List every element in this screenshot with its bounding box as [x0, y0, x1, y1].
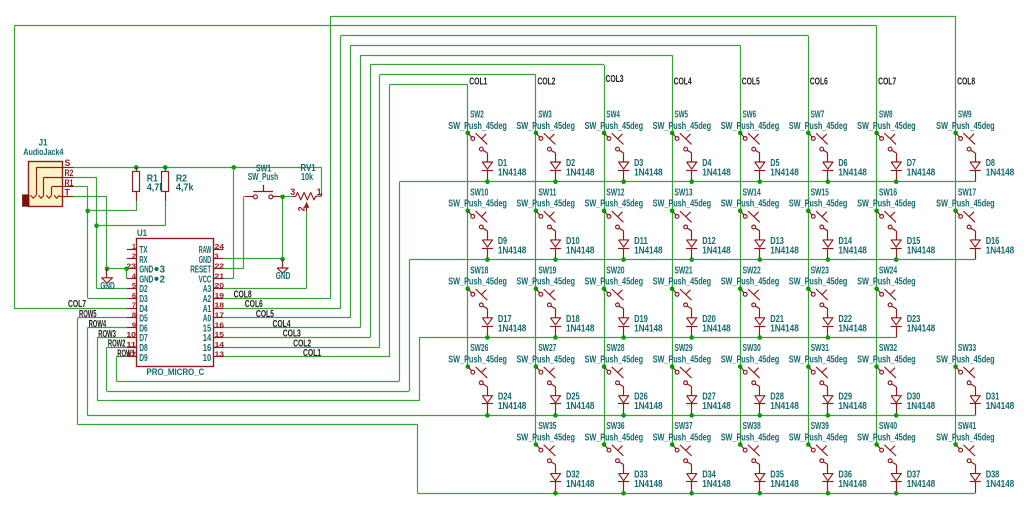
svg-text:SW_Push_45deg: SW_Push_45deg [653, 198, 712, 210]
svg-text:1N4148: 1N4148 [634, 244, 663, 256]
svg-text:SW_Push_45deg: SW_Push_45deg [936, 354, 995, 366]
svg-text:SW_Push_45deg: SW_Push_45deg [516, 198, 575, 210]
svg-text:SW3: SW3 [538, 109, 552, 121]
svg-text:1N4148: 1N4148 [907, 167, 936, 179]
svg-text:1N4148: 1N4148 [566, 400, 595, 412]
svg-text:SW_Push_45deg: SW_Push_45deg [516, 276, 575, 288]
svg-text:SW14: SW14 [743, 186, 761, 198]
svg-text:1N4148: 1N4148 [498, 322, 527, 334]
svg-text:19: 19 [215, 291, 224, 300]
svg-text:SW_Push_45deg: SW_Push_45deg [936, 431, 995, 443]
svg-text:1N4148: 1N4148 [838, 244, 867, 256]
svg-text:1N4148: 1N4148 [838, 167, 867, 179]
svg-text:1N4148: 1N4148 [498, 167, 527, 179]
svg-text:R2: R2 [65, 168, 74, 178]
svg-text:SW_Push_45deg: SW_Push_45deg [721, 276, 780, 288]
svg-text:COL1: COL1 [303, 348, 321, 359]
svg-text:10k: 10k [301, 171, 313, 183]
svg-text:5: 5 [132, 281, 136, 290]
svg-text:1N4148: 1N4148 [838, 478, 867, 490]
svg-text:SW33: SW33 [958, 342, 976, 354]
svg-text:SW18: SW18 [470, 264, 488, 276]
svg-text:1N4148: 1N4148 [702, 167, 731, 179]
svg-text:1: 1 [317, 187, 322, 197]
svg-text:SW5: SW5 [674, 109, 688, 121]
svg-text:SW38: SW38 [743, 420, 761, 432]
svg-text:D9: D9 [139, 353, 148, 364]
svg-text:1N4148: 1N4148 [907, 400, 936, 412]
svg-text:1N4148: 1N4148 [702, 322, 731, 334]
svg-text:SW_Push_45deg: SW_Push_45deg [516, 354, 575, 366]
svg-text:COL6: COL6 [810, 76, 828, 87]
svg-text:COL2: COL2 [293, 338, 311, 349]
svg-text:1N4148: 1N4148 [838, 322, 867, 334]
svg-text:PRO_MICRO_C: PRO_MICRO_C [147, 367, 205, 377]
svg-text:1N4148: 1N4148 [634, 167, 663, 179]
svg-text:24: 24 [215, 242, 226, 251]
svg-text:SW_Push_45deg: SW_Push_45deg [585, 276, 644, 288]
svg-text:GND: GND [276, 270, 291, 282]
svg-text:SW_Push_45deg: SW_Push_45deg [516, 431, 575, 443]
svg-text:SW23: SW23 [811, 264, 829, 276]
svg-text:1N4148: 1N4148 [770, 400, 799, 412]
svg-text:2: 2 [132, 252, 136, 261]
svg-text:SW_Push: SW_Push [248, 171, 278, 183]
svg-text:SW_Push_45deg: SW_Push_45deg [789, 354, 848, 366]
svg-text:SW21: SW21 [674, 264, 692, 276]
svg-text:AudioJack4: AudioJack4 [23, 147, 63, 157]
svg-text:17: 17 [215, 311, 224, 320]
svg-text:COL7: COL7 [878, 76, 896, 87]
svg-text:1N4148: 1N4148 [702, 400, 731, 412]
svg-text:22: 22 [215, 262, 224, 271]
svg-text:SW26: SW26 [470, 342, 488, 354]
svg-text:SW9: SW9 [958, 109, 972, 121]
svg-text:1N4148: 1N4148 [498, 400, 527, 412]
svg-text:8: 8 [132, 311, 136, 320]
svg-text:1N4148: 1N4148 [566, 244, 595, 256]
svg-text:1N4148: 1N4148 [634, 478, 663, 490]
svg-text:SW_Push_45deg: SW_Push_45deg [448, 120, 507, 132]
svg-text:SW15: SW15 [811, 186, 829, 198]
svg-text:18: 18 [215, 301, 224, 310]
svg-text:1N4148: 1N4148 [907, 322, 936, 334]
svg-text:SW8: SW8 [879, 109, 893, 121]
svg-text:1N4148: 1N4148 [986, 244, 1015, 256]
svg-text:SW_Push_45deg: SW_Push_45deg [936, 120, 995, 132]
svg-text:1N4148: 1N4148 [770, 167, 799, 179]
svg-text:1N4148: 1N4148 [634, 322, 663, 334]
svg-text:SW_Push_45deg: SW_Push_45deg [653, 431, 712, 443]
svg-text:16: 16 [215, 320, 224, 329]
svg-text:SW_Push_45deg: SW_Push_45deg [448, 354, 507, 366]
svg-text:SW_Push_45deg: SW_Push_45deg [585, 120, 644, 132]
svg-text:3: 3 [215, 252, 219, 261]
svg-text:SW_Push_45deg: SW_Push_45deg [653, 276, 712, 288]
svg-text:1N4148: 1N4148 [986, 478, 1015, 490]
svg-text:COL2: COL2 [537, 76, 555, 87]
svg-text:SW20: SW20 [606, 264, 624, 276]
svg-text:COL1: COL1 [469, 76, 487, 87]
svg-text:S: S [65, 158, 71, 168]
svg-text:SW7: SW7 [811, 109, 825, 121]
svg-text:SW_Push_45deg: SW_Push_45deg [585, 354, 644, 366]
svg-text:SW13: SW13 [674, 186, 692, 198]
svg-text:SW40: SW40 [879, 420, 897, 432]
svg-text:SW_Push_45deg: SW_Push_45deg [857, 431, 916, 443]
svg-text:SW_Push_45deg: SW_Push_45deg [789, 198, 848, 210]
svg-text:21: 21 [215, 271, 224, 280]
svg-text:R1: R1 [65, 178, 74, 188]
svg-text:SW10: SW10 [470, 186, 488, 198]
svg-text:13: 13 [215, 350, 224, 359]
svg-text:GND: GND [100, 280, 115, 292]
svg-text:SW_Push_45deg: SW_Push_45deg [857, 354, 916, 366]
svg-text:SW_Push_45deg: SW_Push_45deg [516, 120, 575, 132]
svg-text:15: 15 [215, 330, 224, 339]
svg-text:SW_Push_45deg: SW_Push_45deg [721, 431, 780, 443]
svg-text:SW39: SW39 [811, 420, 829, 432]
svg-text:COL5: COL5 [742, 76, 760, 87]
svg-text:SW2: SW2 [470, 109, 484, 121]
svg-text:COL3: COL3 [283, 329, 301, 340]
svg-text:SW37: SW37 [674, 420, 692, 432]
svg-text:COL8: COL8 [957, 76, 975, 87]
svg-text:SW_Push_45deg: SW_Push_45deg [653, 354, 712, 366]
svg-text:COL4: COL4 [273, 319, 291, 330]
svg-text:SW_Push_45deg: SW_Push_45deg [857, 276, 916, 288]
svg-text:SW12: SW12 [606, 186, 624, 198]
svg-text:COL4: COL4 [674, 76, 692, 87]
svg-text:SW28: SW28 [606, 342, 624, 354]
svg-text:4,7k: 4,7k [176, 182, 194, 194]
svg-text:SW_Push_45deg: SW_Push_45deg [789, 276, 848, 288]
svg-text:11: 11 [126, 340, 135, 349]
svg-text:J1: J1 [39, 137, 48, 147]
svg-text:COL3: COL3 [606, 74, 624, 85]
svg-text:SW4: SW4 [606, 109, 620, 121]
svg-text:ROW2: ROW2 [108, 339, 126, 350]
svg-text:1N4148: 1N4148 [907, 478, 936, 490]
svg-text:1N4148: 1N4148 [986, 400, 1015, 412]
svg-text:SW_Push_45deg: SW_Push_45deg [721, 120, 780, 132]
svg-text:SW_Push_45deg: SW_Push_45deg [789, 120, 848, 132]
svg-text:SW35: SW35 [538, 420, 556, 432]
svg-text:1N4148: 1N4148 [770, 244, 799, 256]
svg-text:SW_Push_45deg: SW_Push_45deg [721, 354, 780, 366]
svg-text:SW19: SW19 [538, 264, 556, 276]
svg-text:SW_Push_45deg: SW_Push_45deg [585, 198, 644, 210]
svg-text:1N4148: 1N4148 [634, 400, 663, 412]
svg-text:10: 10 [126, 330, 135, 339]
svg-text:SW30: SW30 [743, 342, 761, 354]
svg-text:20: 20 [215, 281, 224, 290]
svg-text:7: 7 [132, 301, 136, 310]
svg-text:SW11: SW11 [538, 186, 556, 198]
svg-text:SW31: SW31 [811, 342, 829, 354]
svg-text:SW_Push_45deg: SW_Push_45deg [448, 198, 507, 210]
svg-text:3: 3 [290, 187, 295, 197]
svg-text:2: 2 [160, 274, 166, 285]
svg-text:SW29: SW29 [674, 342, 692, 354]
svg-text:COL8: COL8 [234, 289, 252, 300]
svg-text:SW27: SW27 [538, 342, 556, 354]
svg-text:ROW5: ROW5 [79, 309, 97, 320]
svg-text:1N4148: 1N4148 [566, 167, 595, 179]
svg-text:SW17: SW17 [958, 186, 976, 198]
svg-text:SW_Push_45deg: SW_Push_45deg [653, 120, 712, 132]
svg-text:1N4148: 1N4148 [770, 478, 799, 490]
svg-text:1N4148: 1N4148 [498, 244, 527, 256]
svg-text:SW_Push_45deg: SW_Push_45deg [789, 431, 848, 443]
svg-text:SW24: SW24 [879, 264, 897, 276]
svg-text:6: 6 [132, 291, 136, 300]
svg-text:SW_Push_45deg: SW_Push_45deg [936, 198, 995, 210]
svg-text:1N4148: 1N4148 [986, 167, 1015, 179]
svg-text:SW_Push_45deg: SW_Push_45deg [585, 431, 644, 443]
svg-text:COL5: COL5 [256, 309, 274, 320]
svg-text:SW_Push_45deg: SW_Push_45deg [857, 198, 916, 210]
svg-text:SW_Push_45deg: SW_Push_45deg [448, 276, 507, 288]
svg-text:1N4148: 1N4148 [838, 400, 867, 412]
svg-text:2: 2 [297, 206, 307, 211]
svg-text:1N4148: 1N4148 [770, 322, 799, 334]
svg-text:ROW4: ROW4 [89, 319, 107, 330]
svg-text:SW6: SW6 [743, 109, 757, 121]
svg-text:SW32: SW32 [879, 342, 897, 354]
svg-text:T: T [65, 188, 71, 198]
svg-text:10: 10 [203, 353, 212, 364]
svg-text:SW_Push_45deg: SW_Push_45deg [857, 120, 916, 132]
svg-text:1N4148: 1N4148 [702, 478, 731, 490]
svg-text:SW_Push_45deg: SW_Push_45deg [721, 198, 780, 210]
svg-text:12: 12 [126, 350, 135, 359]
svg-text:1: 1 [132, 242, 136, 251]
svg-text:1N4148: 1N4148 [702, 244, 731, 256]
svg-text:1N4148: 1N4148 [907, 244, 936, 256]
svg-text:U1: U1 [137, 228, 148, 239]
svg-text:14: 14 [215, 340, 226, 349]
svg-text:SW41: SW41 [958, 420, 976, 432]
svg-text:9: 9 [132, 320, 136, 329]
svg-text:SW16: SW16 [879, 186, 897, 198]
svg-text:COL6: COL6 [245, 299, 263, 310]
svg-text:1N4148: 1N4148 [566, 478, 595, 490]
svg-text:ROW3: ROW3 [98, 329, 116, 340]
svg-text:SW22: SW22 [743, 264, 761, 276]
svg-text:1N4148: 1N4148 [566, 322, 595, 334]
svg-text:SW36: SW36 [606, 420, 624, 432]
